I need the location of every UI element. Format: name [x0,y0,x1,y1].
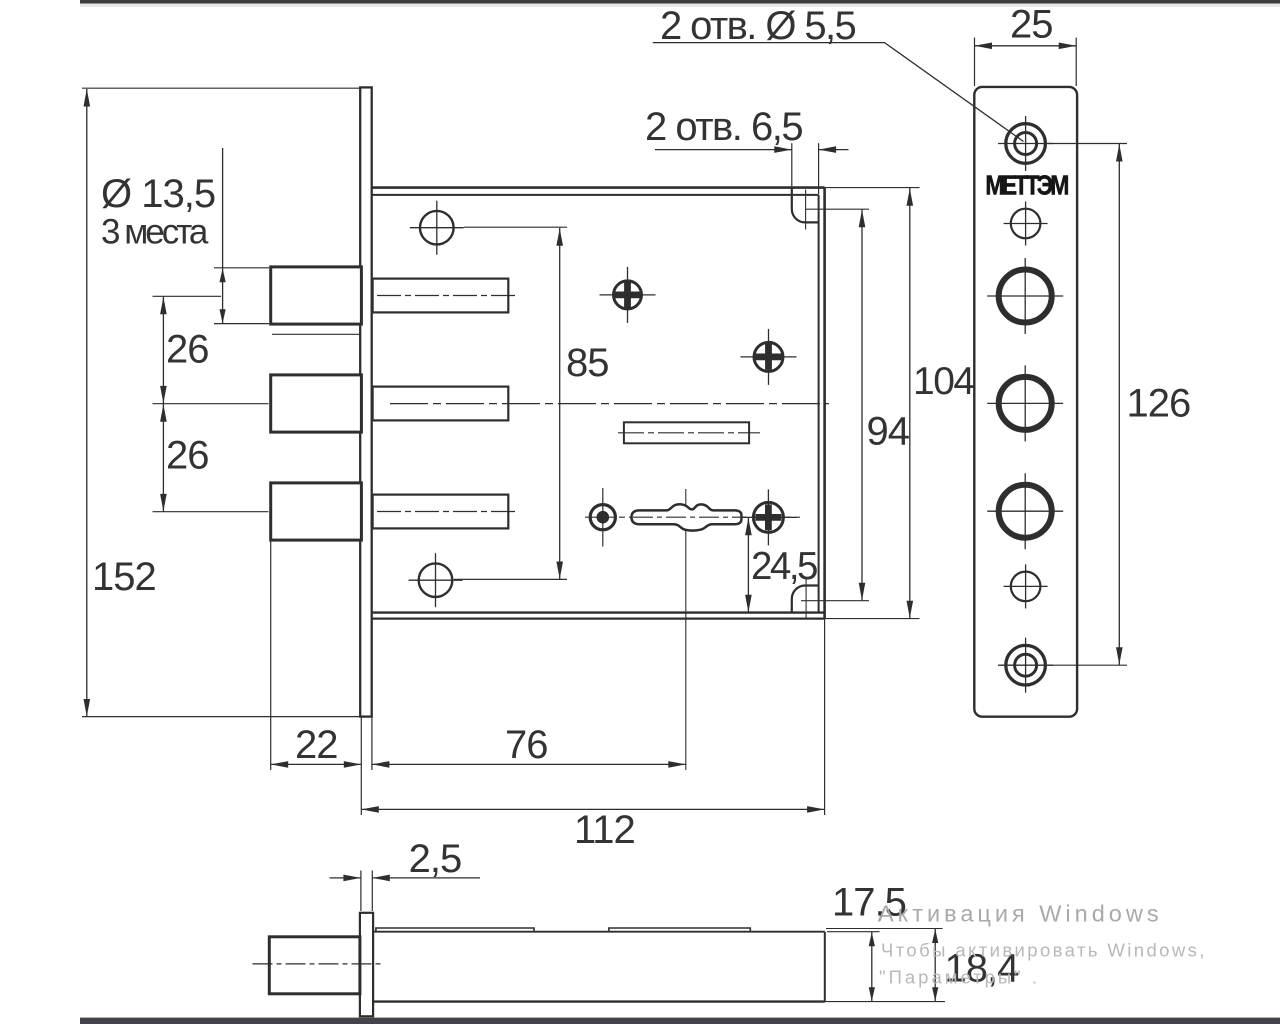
svg-text:26: 26 [166,434,209,478]
dim 26 ext upper [153,295,222,297]
dim 152 extension bottom [82,716,367,718]
corner hole top-right centerline [805,190,807,230]
case top outer edge [372,186,825,189]
deadbolt 2 (protruding, thick outline) [271,375,362,432]
dim 24.5 line [747,517,749,612]
dim 25 line [975,45,1077,47]
row 2 main centerline (dash-dot) [390,403,829,405]
side view bolt centerline [253,963,382,965]
dim 112 line [361,808,824,810]
bottom taskbar strip [80,1018,1280,1024]
dim 85 ext bottom [454,578,567,580]
side view case bottom extension [825,1001,945,1003]
side view case bottom edge [373,1000,825,1002]
dim 126 ext bottom [1048,664,1127,666]
deadbolt 3 shaft inside case [373,495,509,529]
svg-text:22: 22 [295,723,338,767]
dim 22 ext left [270,541,272,771]
faceplate left edge extension down [360,717,362,815]
side view cover tab 1 [376,928,534,932]
svg-text:3 места: 3 места [101,213,209,252]
dim 2otv65 line left [655,149,792,151]
svg-text:2,5: 2,5 [409,837,462,881]
svg-text:"Параметры" .: "Параметры" . [879,967,1040,988]
case right outer wall [823,188,826,619]
case top edge extension to 104 dim [825,187,920,189]
shaft 3 centerline [377,511,518,513]
dim 13.5 ext top [214,267,269,269]
dim 2.5 ext left [360,871,362,912]
row 2 centerline extension (left) [153,403,269,405]
phillips screw lower-right [740,516,796,518]
leader 2 otv d5.5 [653,43,1024,142]
dim 104 line [909,188,911,619]
dim 94 ext top [806,208,869,210]
shaft 1 centerline [377,295,518,297]
strike hole small lower [1004,585,1048,587]
svg-text:МЕТТЭМ: МЕТТЭМ [985,170,1068,201]
dim 17.5 line [871,932,873,1002]
svg-text:2 отв. Ø 5,5: 2 отв. Ø 5,5 [660,4,856,48]
dim 2otv65 line right [819,149,849,151]
dim 94 ext bottom [801,600,869,602]
dim 152 line [86,89,88,717]
dim 18.4 ext top [826,928,943,930]
dim 18.4 line [934,929,936,1002]
dim 13.5 line [222,148,224,323]
dim 2.5 ext right [371,871,373,912]
svg-text:85: 85 [566,341,609,385]
case right inner wall [818,195,820,613]
strike hole washer bottom [998,664,1053,666]
deadbolt 1 shaft inside case [373,279,509,313]
dim 22 line [271,763,362,765]
top window edge bar [80,0,1280,4]
corner hole bottom-right centerline [805,578,807,618]
dim 85 line [559,228,561,580]
mounting hole bottom-left (plain crosshair) [409,579,463,581]
dim 26 line upper [162,296,164,403]
guide line under deadbolt 1 [272,333,361,335]
dim 126 line [1118,144,1120,666]
side view cover tab 2 [609,928,750,932]
svg-text:104: 104 [913,360,974,403]
corner screw hole bottom-right (quarter view) [792,586,819,612]
svg-text:94: 94 [867,410,910,454]
key lever (key bit profile) [632,504,742,530]
strike plate body [974,87,1077,717]
dim 2.5 line right [372,877,480,879]
svg-text:2 отв. 6,5: 2 отв. 6,5 [645,105,802,149]
rivet (left of key lever) [590,505,615,530]
dim 2otv65 ext right [818,143,820,194]
deadbolt 1 (protruding, thick outline) [271,267,362,324]
svg-text:Активация Windows: Активация Windows [878,901,1163,927]
side view case right edge [824,932,826,1002]
phillips screw upper-middle [600,294,656,296]
deadbolt 2 shaft inside case [373,387,509,421]
svg-text:152: 152 [92,555,156,599]
svg-text:76: 76 [505,723,548,767]
dim 94 line [861,209,863,601]
dim 85 ext top [464,226,567,228]
side view case top edge [373,931,825,933]
dim 17.5 ext top [827,931,880,933]
dim 25 ext left [974,38,976,87]
case right edge extension down [824,619,826,815]
corner screw hole top-right (quarter view) [792,189,819,223]
key slot plate [624,422,749,443]
svg-text:Чтобы активировать Windows,: Чтобы активировать Windows, [881,940,1207,961]
dim 2.5 line left [330,877,361,879]
strike hole small upper [1004,223,1048,225]
svg-text:126: 126 [1127,382,1191,426]
faceplate (front plate, main view) [360,87,372,716]
dim 13.5 ext bottom [214,323,269,325]
side view faceplate [360,913,373,1017]
dim 126 ext top [1048,143,1127,145]
dim 26 ext lower [153,511,269,513]
dim 25 ext right [1075,38,1077,87]
key slot centerline [618,432,760,434]
keyhole axis vertical line [685,489,687,770]
case bottom edge extension to 104 dim [825,618,920,620]
phillips screw right [741,356,797,358]
faceplate right edge extension down [371,717,373,770]
case bottom outer edge [372,617,825,619]
lever row centerline [585,516,800,518]
strike hole large 2 [987,402,1063,404]
dim 26 line lower [162,404,164,512]
lever centerline overlay [633,516,740,518]
svg-text:26: 26 [166,328,209,372]
strike hole large 3 [987,510,1063,512]
strike hole large 1 [987,295,1063,297]
METTEM logo [985,170,1068,201]
mounting hole top-left (plain crosshair) [410,227,464,229]
dim 152 extension top [82,87,360,89]
svg-text:25: 25 [1010,3,1053,47]
strike hole washer top [998,143,1053,145]
case bottom inner edge [372,611,825,613]
dim 76 line [372,763,686,765]
dim 2otv65 ext left [791,143,793,208]
deadbolt 3 (protruding, thick outline) [271,483,362,540]
svg-text:24,5: 24,5 [751,545,817,588]
side view deadbolt [269,937,360,994]
svg-text:112: 112 [574,808,635,852]
svg-text:Ø 13,5: Ø 13,5 [101,172,215,216]
case top inner edge [372,194,819,196]
